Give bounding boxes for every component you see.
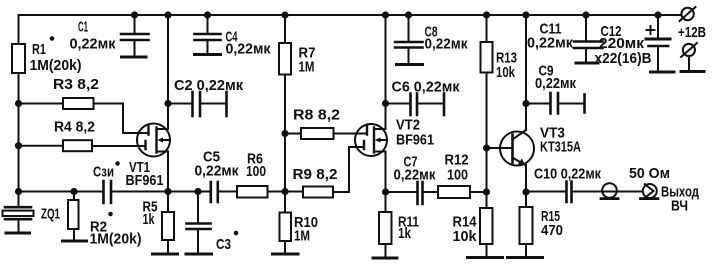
terminal +12V [681,8,693,20]
resistor R6 [237,186,268,198]
capacitor Сзи [104,181,112,203]
capacitor C2 [168,103,226,105]
node C2 end bar [225,92,228,116]
svg-text:BF961: BF961 [396,132,434,149]
star R1 [50,36,55,41]
node junction left/R4 row [15,142,22,149]
svg-text:0,22мк: 0,22мк [226,41,271,58]
svg-text:0,22мк: 0,22мк [535,75,576,92]
transistor VT1 [137,124,170,157]
resistor R3 [63,98,94,109]
ground R2 [63,240,87,243]
node junction rail / VT3 collector [522,11,529,18]
node junction VT3 emitter / C10 row [522,188,529,195]
node junction rail / C8 [405,11,412,18]
ground R14 [468,256,503,259]
svg-text:R8 8,2: R8 8,2 [293,107,340,124]
svg-text:R9 8,2: R9 8,2 [293,166,338,183]
capacitor C3 [197,192,199,254]
ground ZQ1 [6,232,30,235]
node C6 end bar [443,94,446,116]
node junction left/mid row [15,188,22,195]
svg-text:R1: R1 [32,41,46,58]
star Сзи [115,161,120,166]
svg-text:470: 470 [541,222,563,239]
svg-text:C6 0,22мк: C6 0,22мк [392,79,460,96]
node junction R13 / VT3 base [483,144,490,151]
node junction rail / C12 [654,11,661,18]
wire R11 to ground [385,244,387,257]
ground C1 [122,56,147,59]
svg-text:1k: 1k [398,225,412,242]
svg-text:Сзи: Сзи [93,164,114,181]
wire VT2 source to C7 [386,191,418,193]
wire R2 stub [73,192,75,241]
ground C8 [397,63,423,66]
capacitor C9 [526,103,584,105]
wire R12 to R14 node [470,191,487,193]
svg-text:C10 0,22мк: C10 0,22мк [534,166,601,183]
svg-text:KT315A: KT315A [540,139,581,156]
crystal ZQ1 [5,207,31,219]
svg-text:1M(20k): 1M(20k) [90,231,142,248]
terminal power ground [683,44,695,56]
ground R11 [373,257,397,260]
wire VT3 collector vertical [525,15,527,130]
ground C11 [576,62,598,65]
ground R15 [508,256,543,259]
node junction R2/mid row [70,188,77,195]
wire VT1 drain vertical [167,15,169,129]
node junction rail / C1 [131,11,138,18]
node junction left/R3 row [15,100,22,107]
capacitor C1 [134,15,136,56]
node junction VT1 drain / C2 [164,100,171,107]
transistor VT2 [355,124,387,156]
node junction rail / C4 [204,11,211,18]
svg-text:ZQ1: ZQ1 [41,206,60,223]
svg-text:+12В: +12В [678,24,706,41]
svg-text:C3: C3 [216,236,231,253]
wire VT2 drain vertical [385,15,387,129]
wire R15 stub [525,192,527,257]
resistor R7 [279,43,291,75]
wire VT2 source vertical [385,152,387,213]
wire left vertical branch [18,15,20,206]
wire C5 to R6 [218,191,237,193]
svg-text:1M: 1M [299,59,315,76]
svg-text:C1: C1 [78,19,88,36]
wire R10 to ground [284,241,286,253]
wire R4 row [19,145,146,147]
ground C12 [651,71,675,74]
resistor R15 [520,207,533,244]
wire C10 to feedthrough to output [572,191,643,193]
resistor R4 [63,140,92,151]
resistor R1 [12,44,25,73]
svg-text:1k: 1k [143,211,155,228]
svg-text:ВЧ: ВЧ [671,198,688,215]
svg-text:R3 8,2: R3 8,2 [53,76,99,93]
wire R7 branch vertical [284,15,286,212]
svg-text:R4 8,2: R4 8,2 [54,119,95,136]
wire R14 to ground [486,244,488,257]
capacitor C4 [207,15,209,53]
wire VT3 emitter vertical [525,165,527,192]
capacitor C12 [657,15,659,71]
svg-text:1M(20k): 1M(20k) [30,57,82,74]
node junction R6/R9/R10 [281,188,288,195]
ground C3 [186,253,212,256]
resistor R9 [303,187,333,198]
wire R5 to ground [167,240,169,253]
svg-text:0,22мк: 0,22мк [195,163,239,180]
capacitor C5 [211,182,218,202]
star C3 [234,231,239,236]
terminal output [643,184,657,198]
ground R5 [153,253,178,256]
resistor R5 [162,212,174,240]
ground power terminal [681,70,704,73]
svg-text:0,22мк: 0,22мк [527,35,573,52]
node C9 end bar [583,95,586,113]
ground R10 [273,253,299,256]
wire mid row left [19,191,104,193]
wire mid row Сзи to C5 [112,191,211,193]
capacitor C7 [418,182,423,204]
wire VT3 emitter to C10 [526,191,566,193]
node junction R12/R14/R13 [483,188,490,195]
node junction VT2 drain / C6 [382,100,389,107]
resistor R2 [68,200,79,229]
transistor VT3 [500,132,534,166]
node junction C3 / mid row [194,188,201,195]
ground C4 [195,53,221,56]
resistor R11 [379,212,392,244]
resistor R14 [480,208,493,244]
node feedthrough insulator [602,183,617,198]
wire R9 to VT2 gate2 [333,147,364,192]
wire +12V top rail [19,14,682,16]
wire R3 row [19,104,149,134]
node junction rail / C11 [582,11,589,18]
svg-text:10k: 10k [453,228,478,245]
node junction VT1 source / mid row [164,188,171,195]
node junction VT2 source / C7 row [382,188,389,195]
svg-text:100: 100 [246,163,266,180]
svg-text:0,22мк: 0,22мк [394,167,436,184]
wire R6 to R9 [268,191,304,193]
capacitor C10 [567,182,572,203]
node junction R7 / R8 [281,130,288,137]
wire R13 branch vertical [486,15,488,208]
node junction rail / VT2 [382,11,389,18]
node junction rail / R7 [281,11,288,18]
capacitor C11 [585,15,587,62]
resistor R8 [301,128,334,139]
svg-text:10k: 10k [496,64,515,81]
node junction rail / VT1 [164,11,171,18]
svg-text:0,22мк: 0,22мк [70,36,116,53]
resistor R10 [280,213,292,242]
wire C7 to R12 [423,191,438,193]
svg-text:x22(16)В: x22(16)В [595,50,652,67]
star R2 [108,212,113,217]
svg-text:1M: 1M [294,228,310,245]
svg-text:50 Ом: 50 Ом [629,165,670,182]
label C12 plus [647,26,655,34]
svg-text:100: 100 [447,167,468,184]
resistor R13 [481,42,493,73]
svg-text:0,22мк: 0,22мк [425,36,468,53]
node junction rail / R13 [483,11,490,18]
wire R8 row [285,133,367,135]
capacitor C8 [408,15,410,64]
capacitor C6 [386,103,444,105]
wire VT1 source vertical [167,152,169,213]
svg-text:C2 0,22мк: C2 0,22мк [174,77,243,94]
resistor R12 [438,186,470,198]
svg-text:BF961: BF961 [126,172,164,189]
node junction VT3 collector / C9 [522,100,529,107]
